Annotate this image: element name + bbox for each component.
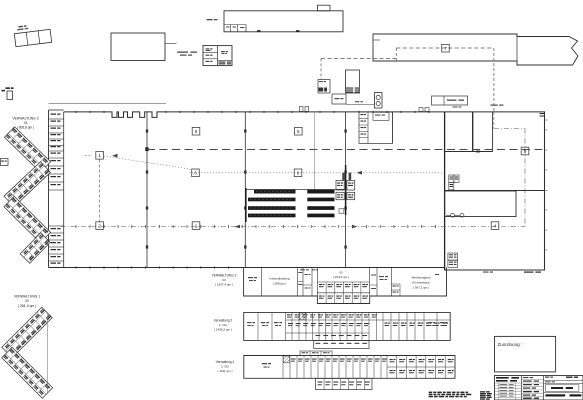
empty storage building (111, 33, 177, 61)
svg-text:( 367,2 qm ): ( 367,2 qm ) (413, 286, 429, 290)
label 03 234,5 qm (333, 271, 349, 280)
section marker 6b (295, 127, 303, 135)
garage block (3 bays, rotated) (13, 22, 51, 46)
route arrows on south line (235, 225, 358, 229)
east facade ticks (540, 113, 548, 250)
storage racks west group (248, 190, 296, 218)
svg-text:( 268, 6 qm ): ( 268, 6 qm ) (18, 304, 36, 308)
svg-text:Verwaltung 2: Verwaltung 2 (216, 360, 235, 364)
svg-text:Zuordnung :: Zuordnung : (498, 342, 523, 347)
section marker 6a (192, 127, 200, 135)
interior wall x=472.7 (472, 112, 474, 152)
north-east room (445, 112, 493, 152)
west wall outer line (48, 110, 50, 268)
long building with section 7 (373, 34, 578, 65)
east wall equipment boxes upper (449, 175, 459, 190)
route marker 6d (294, 169, 302, 177)
side annex on west wing (1, 159, 9, 166)
svg-text:7: 7 (444, 46, 447, 51)
surveyor stamp bottom-left of block (480, 391, 492, 399)
svg-text:( 805,8 qm ): ( 805,8 qm ) (17, 126, 34, 130)
gate pit box (Grube Rolltore) (432, 96, 468, 105)
svg-text:03: 03 (222, 278, 226, 282)
ground floor annex strip (244, 268, 447, 304)
rack top line (246, 188, 346, 190)
column ticks on south wall (76, 266, 228, 268)
interior wall x=444.6 (444, 112, 446, 270)
Kunststoff-Zwischenlager block (203, 46, 232, 66)
hall office block (north centre) (359, 112, 393, 143)
title block (495, 376, 583, 400)
service block west (318, 80, 330, 94)
west wall inner line (63, 112, 65, 268)
svg-text:03: 03 (24, 121, 28, 125)
transformer boxes south-east (448, 253, 458, 267)
route east leg (494, 112, 525, 227)
svg-text:Werkzeugbau: Werkzeugbau (411, 276, 430, 280)
gatehouse (Pforte) (2, 87, 14, 99)
svg-text:6: 6 (297, 129, 300, 134)
chimney pair (375, 93, 383, 109)
dense stamp label lower right of plans (429, 392, 472, 398)
label Instandhaltung (269, 277, 290, 286)
svg-text:4: 4 (494, 223, 497, 228)
svg-text:2: 2 (98, 223, 101, 228)
svg-text:( 1637,4 qm ): ( 1637,4 qm ) (215, 283, 233, 287)
svg-text:VERWALTUNG 1: VERWALTUNG 1 (14, 295, 40, 299)
svg-text:»Formenbau«: »Formenbau« (412, 281, 431, 285)
svg-text:( 1436,2 qm ): ( 1436,2 qm ) (214, 328, 232, 332)
second floor strip (244, 351, 455, 390)
svg-text:00: 00 (25, 299, 29, 303)
label VERWALTUNG 3 (12, 117, 38, 130)
column blobs on hall walls (146, 129, 347, 248)
storage racks east group (307, 190, 334, 218)
trolley symbol (446, 213, 464, 217)
route marker 5 (521, 147, 529, 155)
svg-text:6: 6 (195, 129, 198, 134)
route marker 1 west (96, 152, 104, 160)
rack-end control boxes (336, 173, 355, 214)
route marker 4 (491, 222, 499, 230)
Zuordnung legend box (495, 336, 556, 372)
Bergehalle (224, 5, 343, 32)
svg-text:1: 1 (98, 153, 101, 158)
svg-text:( 288 qm ): ( 288 qm ) (273, 282, 287, 286)
interior wall x=345.6 (345, 112, 347, 268)
route to west buildings (321, 58, 396, 79)
route marker 6c (192, 169, 200, 177)
door canopies on north wall (300, 107, 430, 112)
label Kunst. Zwischenlager (177, 52, 197, 56)
interior wall x=245 (244, 112, 247, 268)
label 2 Rolltore (453, 105, 504, 108)
svg-text:1: 1 (195, 223, 198, 228)
east wing dividing wall (445, 190, 545, 192)
svg-text:2. OG: 2. OG (221, 365, 230, 369)
stairwell hatch row2 (300, 313, 307, 320)
route from node 1 east (85, 154, 444, 175)
crane rail grid line (147, 149, 544, 151)
label Verwaltung 2 1.OG (214, 319, 233, 332)
section marker 7 (442, 44, 450, 52)
label VERWALTUNG 1 (14, 295, 40, 309)
svg-text:1. OG: 1. OG (219, 323, 228, 327)
route marker 1 south (192, 222, 200, 230)
label Bergehalle (207, 19, 213, 20)
svg-text:( 1131 qm ): ( 1131 qm ) (217, 369, 232, 373)
svg-text:VERWALTUNG 2: VERWALTUNG 2 (212, 274, 237, 278)
svg-text:VERWALTUNG 3: VERWALTUNG 3 (12, 117, 38, 121)
west wall rooms upper (49, 114, 64, 191)
eave line above north wall (49, 103, 167, 105)
svg-text:5: 5 (524, 149, 527, 154)
svg-text:6: 6 (194, 171, 197, 176)
south dimension text (483, 272, 541, 273)
column ticks on north wall (76, 111, 429, 113)
silo block (346, 70, 360, 93)
route node 1 vertical (99, 160, 101, 222)
interior wall x=147 (145, 112, 148, 268)
column grid line with route y=226.5 (61, 225, 525, 228)
west wall rooms lower (49, 226, 64, 264)
route marker 2 (96, 222, 104, 230)
main hall outline with sawtooth north wall (49, 112, 545, 270)
svg-text:Verwaltung 2: Verwaltung 2 (214, 319, 233, 323)
svg-text:( 234,5 qm ): ( 234,5 qm ) (333, 275, 349, 279)
first floor strip (244, 312, 451, 348)
label Verwaltung 2 EG (212, 274, 237, 287)
ramp block (Rampe) (332, 94, 346, 104)
interior partition x=314.5 (314, 112, 316, 190)
Verwaltung 3 zigzag wing (4, 127, 51, 263)
Verwaltung 1 chevron wing (2, 307, 53, 398)
svg-text:6: 6 (297, 171, 300, 176)
svg-text:Instandhaltung: Instandhaltung (269, 277, 290, 281)
svg-text:03: 03 (339, 271, 343, 275)
loading platform line (346, 101, 374, 104)
south edge annotation mid (300, 269, 318, 270)
stairwell hatch row3 (283, 356, 289, 363)
south-east room (445, 191, 516, 217)
route line in building 7 (396, 48, 494, 112)
label Verwaltung 2 2.OG (216, 360, 235, 373)
label Werkzeugbau (411, 274, 439, 290)
